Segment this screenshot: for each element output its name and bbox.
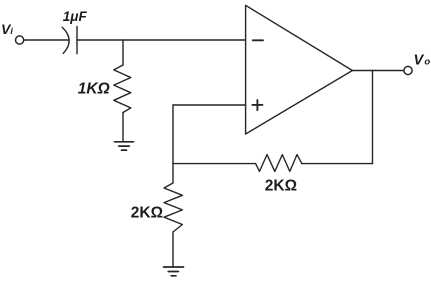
svg-text:1μF: 1μF: [63, 9, 88, 24]
svg-text:2KΩ: 2KΩ: [265, 177, 297, 194]
svg-text:1KΩ: 1KΩ: [78, 80, 110, 97]
svg-text:2KΩ: 2KΩ: [131, 204, 163, 221]
